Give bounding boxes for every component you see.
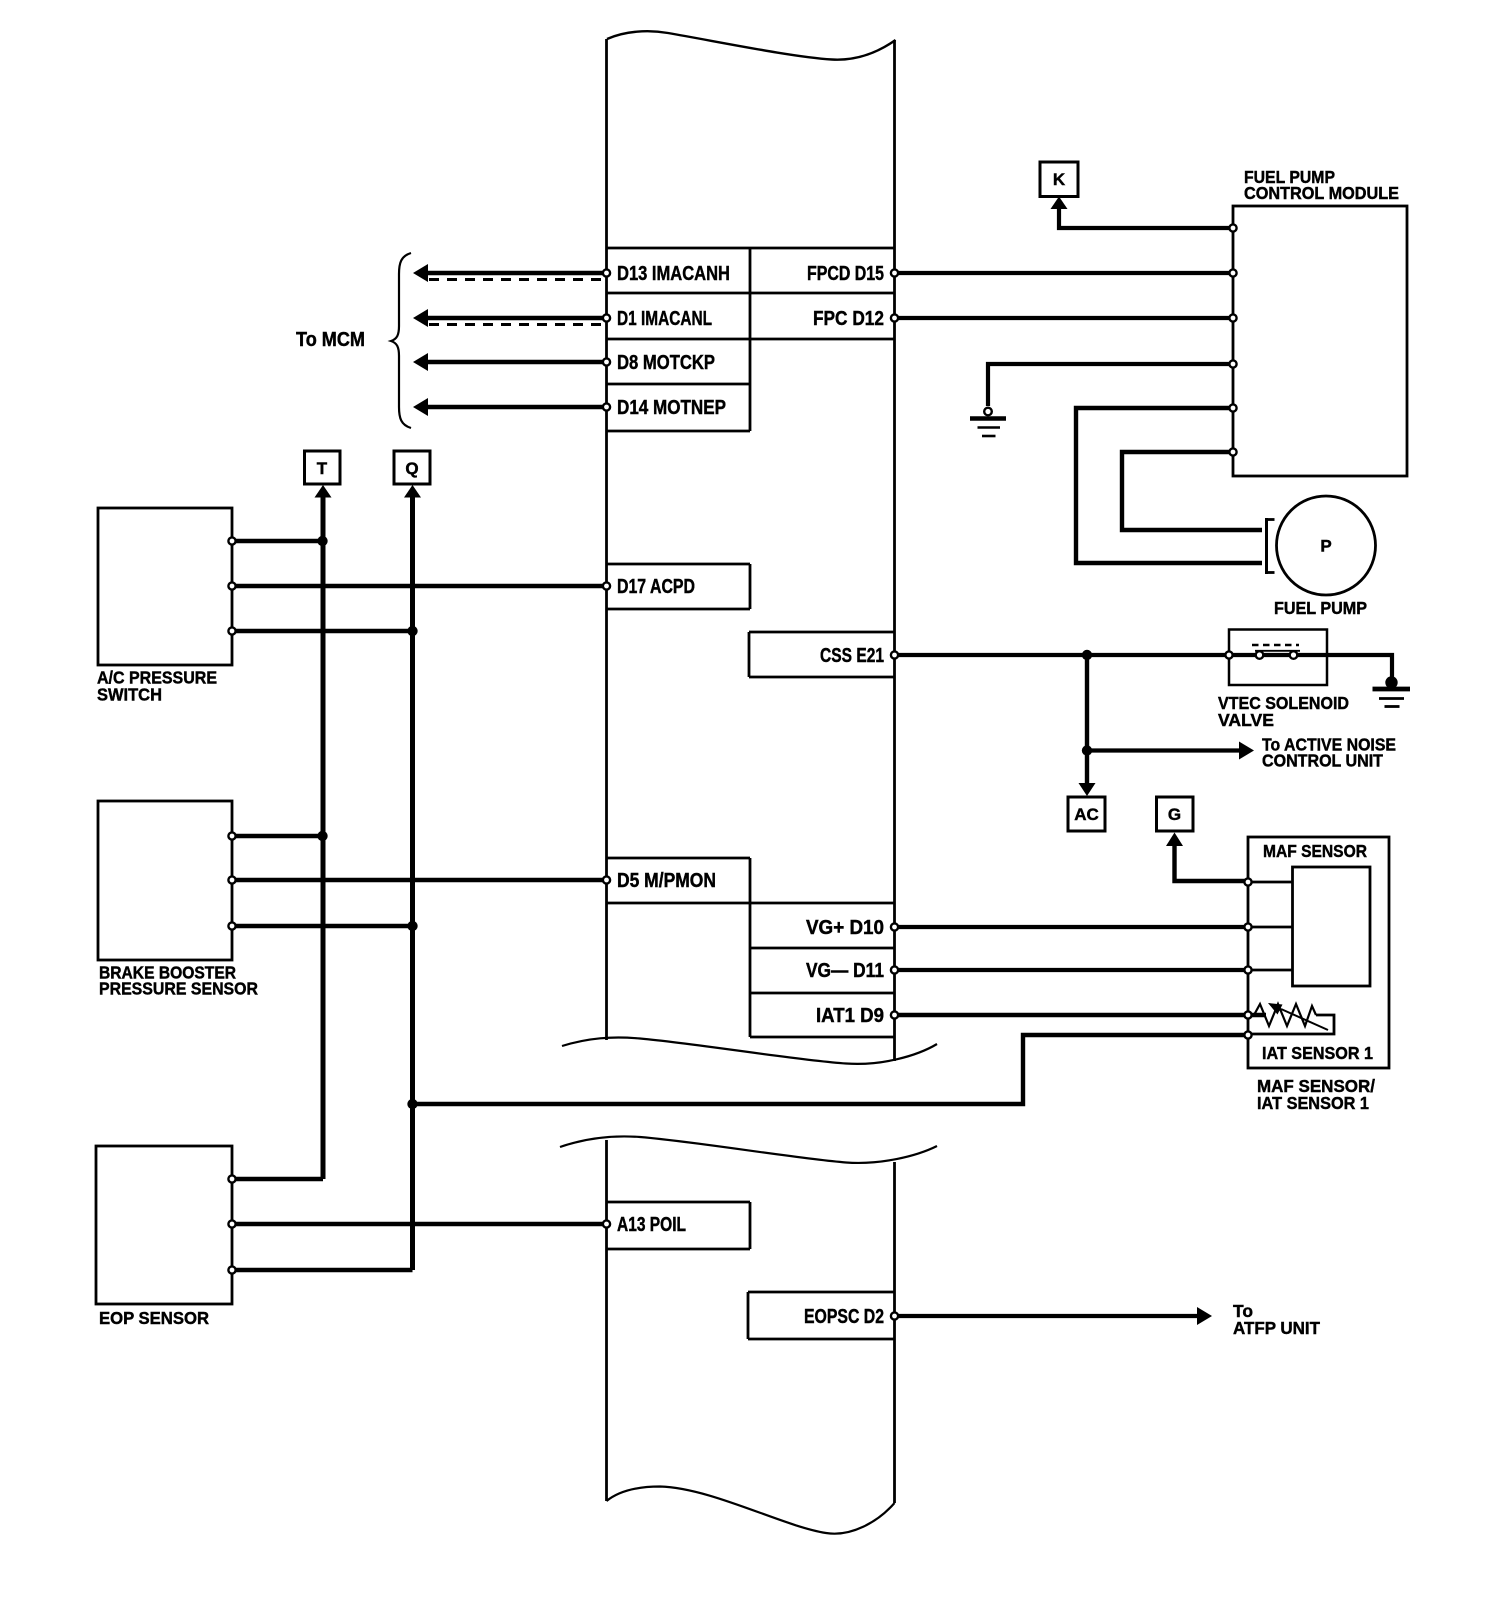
svg-text:D1 IMACANL: D1 IMACANL bbox=[617, 308, 712, 330]
svg-text:MAF SENSOR: MAF SENSOR bbox=[1263, 841, 1367, 861]
svg-text:IAT SENSOR 1: IAT SENSOR 1 bbox=[1257, 1093, 1369, 1113]
svg-text:CONTROL UNIT: CONTROL UNIT bbox=[1262, 751, 1383, 771]
svg-text:SWITCH: SWITCH bbox=[97, 685, 162, 705]
svg-text:D14 MOTNEP: D14 MOTNEP bbox=[617, 397, 726, 419]
svg-text:D13 IMACANH: D13 IMACANH bbox=[617, 263, 730, 285]
svg-text:FPCD D15: FPCD D15 bbox=[807, 263, 884, 285]
svg-text:IAT SENSOR 1: IAT SENSOR 1 bbox=[1262, 1043, 1373, 1063]
svg-text:ATFP UNIT: ATFP UNIT bbox=[1233, 1318, 1320, 1338]
svg-text:EOPSC D2: EOPSC D2 bbox=[804, 1306, 884, 1328]
svg-text:CSS E21: CSS E21 bbox=[820, 645, 884, 667]
svg-text:VG+ D10: VG+ D10 bbox=[806, 917, 884, 939]
svg-text:D5 M/PMON: D5 M/PMON bbox=[617, 870, 716, 892]
svg-text:FUEL PUMP: FUEL PUMP bbox=[1274, 598, 1367, 618]
svg-text:G: G bbox=[1168, 805, 1181, 824]
svg-text:To MCM: To MCM bbox=[296, 329, 365, 351]
svg-text:CONTROL MODULE: CONTROL MODULE bbox=[1244, 183, 1399, 203]
svg-text:Q: Q bbox=[405, 459, 418, 478]
svg-text:IAT1 D9: IAT1 D9 bbox=[816, 1005, 884, 1027]
svg-text:T: T bbox=[317, 459, 328, 478]
svg-text:D8 MOTCKP: D8 MOTCKP bbox=[617, 352, 715, 374]
svg-text:A13 POIL: A13 POIL bbox=[617, 1214, 686, 1236]
svg-text:D17 ACPD: D17 ACPD bbox=[617, 576, 695, 598]
svg-text:VG— D11: VG— D11 bbox=[806, 960, 884, 982]
svg-text:K: K bbox=[1053, 170, 1066, 189]
svg-text:PRESSURE SENSOR: PRESSURE SENSOR bbox=[99, 979, 258, 999]
svg-text:AC: AC bbox=[1074, 805, 1099, 824]
svg-text:P: P bbox=[1320, 537, 1331, 556]
svg-text:VALVE: VALVE bbox=[1218, 710, 1274, 730]
svg-text:FPC D12: FPC D12 bbox=[813, 308, 884, 330]
svg-text:EOP SENSOR: EOP SENSOR bbox=[99, 1308, 209, 1328]
